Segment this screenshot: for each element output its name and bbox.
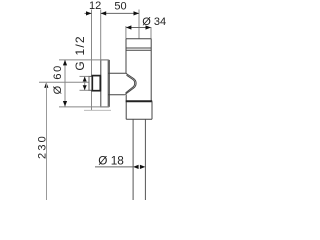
dimension Ø34: arrow right — [146, 25, 152, 29]
230 dimension arrow up — [44, 82, 48, 88]
dimension Ø34: arrow left — [126, 25, 131, 29]
svg-text:230: 230 — [36, 134, 48, 159]
nut bottom edge — [126, 118, 152, 120]
flush pipe Ø18 left edge — [132, 119, 134, 200]
nut left edge — [125, 94, 127, 119]
dimension Ø18: line — [95, 166, 133, 168]
axis centre line G1/2 — [39, 81, 89, 83]
svg-text:50: 50 — [114, 0, 126, 12]
valve top sleeve: left edge — [125, 39, 127, 74]
inlet stub outer outline — [89, 76, 101, 90]
G1/2 arrow down — [83, 85, 87, 90]
dimension Ø34: right extension — [150, 27, 152, 39]
body dome outer curve — [125, 73, 136, 94]
flush pipe Ø18 right edge — [144, 119, 146, 200]
G1/2 top extension line — [80, 75, 90, 77]
G1/2 dimension line — [84, 76, 86, 90]
Ø60 arrow up — [63, 60, 67, 66]
svg-text:Ø 18: Ø 18 — [98, 153, 124, 167]
dimension 50: arrow left tip — [101, 11, 107, 15]
wire: wall face extension line — [91, 10, 93, 111]
dimension 12: arrow right tip — [86, 11, 92, 15]
svg-text:Ø 60: Ø 60 — [52, 64, 64, 94]
wire: flange front extension line — [100, 10, 102, 60]
svg-text:G 1/2: G 1/2 — [73, 35, 87, 70]
nut top thick line — [126, 100, 153, 102]
dimension Ø18: arrow left (inside pointing left) — [133, 165, 139, 169]
faint wall seat line — [84, 109, 111, 111]
valve top sleeve Ø34: top edge — [126, 38, 151, 40]
wire: pipe centre extension line — [138, 10, 140, 39]
Ø60 bottom extension line — [59, 106, 109, 108]
nut right edge — [151, 101, 153, 119]
230 dimension line — [46, 82, 48, 200]
Ø60 arrow down — [63, 101, 67, 107]
G1/2 arrow up — [83, 77, 87, 82]
svg-text:12: 12 — [89, 0, 101, 12]
flange right edge double line — [108, 60, 110, 107]
dimension 50: arrow right tip — [134, 11, 140, 15]
sleeve groove line 2 — [126, 49, 151, 51]
valve top sleeve: right edge — [150, 39, 152, 102]
body dome inner curve — [126, 75, 135, 93]
dimension Ø18: arrow right (inside pointing right) — [140, 165, 146, 169]
inlet stub thick thread rect — [92, 76, 100, 91]
sleeve groove line 1 — [126, 47, 151, 49]
G1/2 bottom extension line — [80, 89, 90, 91]
Ø60 dimension line — [64, 60, 66, 107]
body bottom line — [108, 94, 125, 96]
svg-text:Ø 34: Ø 34 — [142, 16, 166, 28]
dimension Ø34: line — [126, 27, 151, 29]
dimension Ø34: left extension — [125, 26, 127, 39]
body top line — [108, 72, 126, 74]
dimension 12: tail line — [85, 12, 92, 14]
dimension 50: line — [101, 12, 139, 14]
Ø60 top extension line — [59, 59, 108, 61]
wall flange plate Ø60 — [101, 60, 108, 107]
